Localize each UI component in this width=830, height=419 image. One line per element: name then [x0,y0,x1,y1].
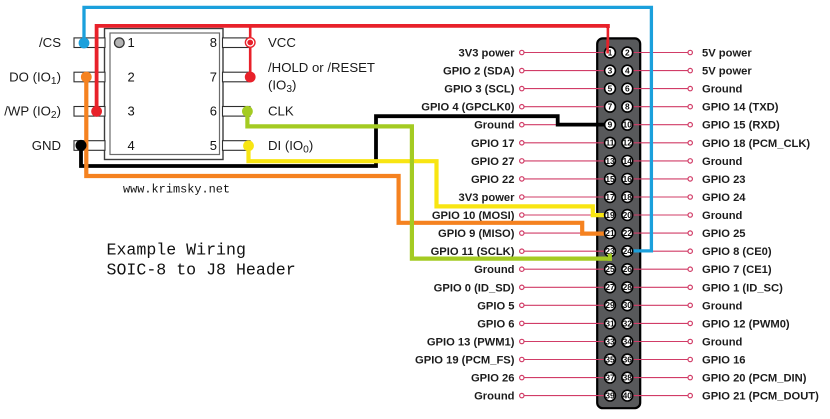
svg-text:GPIO 2 (SDA): GPIO 2 (SDA) [443,66,515,78]
J8 pin 10 circle [622,119,633,130]
node dot on U1 pin2 DO (orange) [81,72,92,83]
svg-text:2: 2 [128,69,135,84]
svg-text:5V power: 5V power [702,48,752,60]
leader line for J8 pin 11 [525,142,611,144]
J8 pin 7 circle [605,101,616,112]
svg-text:14: 14 [623,156,633,166]
node dot on U1 pin3 /WP (red) [91,106,102,117]
svg-text:37: 37 [605,373,615,383]
svg-text:5: 5 [210,138,217,153]
svg-text:GPIO 5: GPIO 5 [477,300,514,312]
open terminal ring for J8 pin 17 [520,195,524,199]
svg-text:Ground: Ground [702,84,743,96]
svg-text:GPIO 11 (SCLK): GPIO 11 (SCLK) [431,246,515,258]
wire 3V3 net tip overlapping J8 pin 1 [606,40,609,54]
open terminal ring for J8 pin 9 [520,123,524,127]
open terminal ring for J8 pin 15 [520,177,524,181]
svg-text:GPIO 26: GPIO 26 [471,373,515,385]
leader line for J8 pin 5 [525,88,611,90]
pin 1 indicator dot of U1 [115,38,125,48]
svg-text:GPIO 6: GPIO 6 [477,318,514,330]
svg-text:33: 33 [605,336,615,346]
J8 pin 14 circle [622,156,633,167]
leader line for J8 pin 22 [627,232,687,234]
J8 pin 24 circle [622,246,633,257]
open terminal ring for J8 pin 27 [520,285,524,289]
svg-text:8: 8 [625,102,630,112]
svg-text:4: 4 [128,138,135,153]
svg-text:DI (IO0): DI (IO0) [268,138,313,155]
svg-text:7: 7 [608,102,613,112]
svg-text:12: 12 [623,138,633,148]
open terminal ring for J8 pin 26 [688,267,692,271]
J8 pin 1 circle [605,47,616,58]
leader line for J8 pin 27 [525,286,611,288]
open terminal ring for J8 pin 23 [520,249,524,253]
svg-text:36: 36 [623,354,633,364]
open terminal ring for J8 pin 18 [688,195,692,199]
open terminal ring for J8 pin 14 [688,159,692,163]
svg-text:17: 17 [605,192,615,202]
node dot on U1 pin4 GND (black) [76,140,87,151]
wire 3V3 net: U1 pin3 /WP to J8 pin1 (red) [97,26,608,112]
svg-text:25: 25 [605,264,615,274]
svg-text:GPIO 10 (MOSI): GPIO 10 (MOSI) [432,210,515,222]
leader line for J8 pin 16 [627,178,687,180]
open terminal ring for J8 pin 20 [688,213,692,217]
svg-text:GPIO 19 (PCM_FS): GPIO 19 (PCM_FS) [415,355,515,367]
svg-text:/HOLD or /RESET: /HOLD or /RESET [268,60,375,75]
open terminal ring for J8 pin 33 [520,339,524,343]
svg-text:30: 30 [623,300,633,310]
wire 3V3 net stub: U1 VCC pin8 to /HOLD pin7 (red) [249,26,252,77]
wire GND net: U1 pin4 to J8 pin9 Ground (black) [81,116,606,166]
J8 pin 5 circle [605,83,616,94]
J8 pin 20 circle [622,210,633,221]
svg-text:1: 1 [128,35,135,50]
open terminal ring for J8 pin 24 [688,249,692,253]
leader line for J8 pin 39 [525,395,611,397]
svg-text:31: 31 [605,318,615,328]
wire CLK net tip notch overlapping J8 pin 23 [608,254,612,261]
svg-text:5V power: 5V power [702,66,752,78]
leader line for J8 pin 28 [627,286,687,288]
svg-text:39: 39 [605,391,615,401]
J8 pin 36 circle [622,354,633,365]
svg-text:DO (IO1): DO (IO1) [9,69,61,86]
leader line for J8 pin 15 [525,178,611,180]
open terminal ring for J8 pin 8 [688,105,692,109]
leader line for J8 pin 6 [627,88,687,90]
svg-text:2: 2 [625,47,630,57]
leader line for J8 pin 30 [627,304,687,306]
leader line for J8 pin 19 [525,214,611,216]
svg-text:6: 6 [210,104,217,119]
svg-text:GPIO 1 (ID_SC): GPIO 1 (ID_SC) [702,282,783,294]
leader line for J8 pin 34 [627,341,687,343]
open terminal ring for J8 pin 7 [520,105,524,109]
leader line for J8 pin 9 [525,124,611,126]
open terminal ring for J8 pin 19 [520,213,524,217]
svg-text:4: 4 [625,66,630,76]
leader line for J8 pin 24 [627,250,687,252]
svg-text:3V3 power: 3V3 power [459,48,516,60]
leader line for J8 pin 32 [627,322,687,324]
svg-text:www.krimsky.net: www.krimsky.net [123,183,230,197]
svg-text:GPIO 15 (RXD): GPIO 15 (RXD) [702,120,780,132]
svg-text:/WP (IO2): /WP (IO2) [4,104,61,121]
svg-text:GPIO 14 (TXD): GPIO 14 (TXD) [702,102,779,114]
svg-text:Ground: Ground [474,391,515,403]
svg-text:6: 6 [625,84,630,94]
svg-text:20: 20 [623,210,633,220]
J8 pin 28 circle [622,282,633,293]
leader line for J8 pin 12 [627,142,687,144]
open terminal ring for J8 pin 39 [520,393,524,397]
J8 pin 30 circle [622,300,633,311]
svg-text:/CS: /CS [39,35,61,50]
open terminal ring for J8 pin 10 [688,123,692,127]
svg-text:3: 3 [608,66,613,76]
open terminal ring for J8 pin 34 [688,339,692,343]
svg-text:Example Wiring: Example Wiring [107,241,246,260]
svg-text:GPIO 9 (MISO): GPIO 9 (MISO) [438,228,515,240]
J8 pin 8 circle [622,101,633,112]
node dot on U1 pin6 CLK (green) [242,106,253,117]
J8 pin 18 circle [622,192,633,203]
svg-text:3: 3 [128,104,135,119]
leader line for J8 pin 3 [525,70,611,72]
svg-text:GPIO 8 (CE0): GPIO 8 (CE0) [702,246,772,258]
svg-text:GND: GND [32,138,61,153]
IC U1 SOIC-8 outer outline [105,29,224,160]
svg-text:GPIO 24: GPIO 24 [702,192,746,204]
J8 pin 3 circle [605,65,616,76]
wire 3V3 net drop into J8 pin 1 (red) [607,26,610,51]
leader line for J8 pin 2 [627,52,687,54]
J8 pin 26 circle [622,264,633,275]
open terminal ring for J8 pin 38 [688,375,692,379]
wire CLK net: U1 pin6 to J8 pin23 GPIO11 SCLK (green) [247,113,609,259]
pin 8 stub of U1 [223,38,251,48]
leader line for J8 pin 7 [525,106,611,108]
svg-text:3V3 power: 3V3 power [459,192,516,204]
J8 pin 37 circle [605,372,616,383]
leader line for J8 pin 38 [627,377,687,379]
open terminal ring for J8 pin 22 [688,231,692,235]
node dot on U1 pin5 DI (yellow) [243,140,254,151]
svg-text:21: 21 [605,228,615,238]
svg-text:34: 34 [623,336,633,346]
svg-text:26: 26 [623,264,633,274]
J8 pin 33 circle [605,336,616,347]
svg-text:GPIO 22: GPIO 22 [471,174,515,186]
svg-text:32: 32 [623,318,633,328]
J8 pin 40 circle [622,390,633,401]
svg-text:40: 40 [623,391,633,401]
open terminal ring for J8 pin 21 [520,231,524,235]
svg-text:13: 13 [605,156,615,166]
svg-text:GPIO 12 (PWM0): GPIO 12 (PWM0) [702,318,790,330]
svg-text:7: 7 [210,69,217,84]
svg-text:GPIO 21 (PCM_DOUT): GPIO 21 (PCM_DOUT) [702,391,819,403]
pin 1 stub of U1 [74,38,105,48]
open terminal ring for J8 pin 5 [520,86,524,90]
pin 5 stub of U1 [223,141,251,151]
J8 pin 35 circle [605,354,616,365]
svg-text:VCC: VCC [268,35,296,50]
leader line for J8 pin 21 [525,232,611,234]
svg-text:Ground: Ground [702,210,743,222]
wire /CS net: U1 pin1 to J8 pin24 GPIO8 CE0 (blue) [84,7,651,251]
leader line for J8 pin 36 [627,359,687,361]
J8 pin 17 circle [605,192,616,203]
J8 pin 15 circle [605,174,616,185]
leader line for J8 pin 18 [627,196,687,198]
node dot on U1 pin1 /CS (blue) [79,38,90,49]
svg-text:16: 16 [623,174,633,184]
wire DO net: U1 pin2 to J8 pin21 GPIO9 MISO (orange) [86,79,606,234]
svg-text:GPIO 7 (CE1): GPIO 7 (CE1) [702,264,772,276]
svg-text:38: 38 [623,373,633,383]
open terminal ring for J8 pin 36 [688,357,692,361]
J8 pin 21 circle [605,228,616,239]
open terminal ring for J8 pin 1 [520,50,524,54]
svg-text:(IO3): (IO3) [268,78,296,95]
svg-text:24: 24 [623,246,633,256]
svg-text:GPIO 18 (PCM_CLK): GPIO 18 (PCM_CLK) [702,138,810,150]
open terminal ring for J8 pin 28 [688,285,692,289]
svg-text:GPIO 3 (SCL): GPIO 3 (SCL) [444,84,515,96]
leader line for J8 pin 23 [525,250,611,252]
leader line for J8 pin 33 [525,341,611,343]
svg-text:5: 5 [608,84,613,94]
leader line for J8 pin 14 [627,160,687,162]
open terminal ring for J8 pin 32 [688,321,692,325]
leader line for J8 pin 31 [525,322,611,324]
svg-text:SOIC-8 to J8 Header: SOIC-8 to J8 Header [107,260,296,279]
pin 2 stub of U1 [74,72,105,82]
leader line for J8 pin 20 [627,214,687,216]
J8 pin 4 circle [622,65,633,76]
svg-text:19: 19 [605,210,615,220]
leader line for J8 pin 40 [627,395,687,397]
open terminal ring for J8 pin 3 [520,68,524,72]
svg-text:Ground: Ground [474,120,515,132]
svg-text:GPIO 23: GPIO 23 [702,174,746,186]
open terminal ring for J8 pin 40 [688,393,692,397]
open terminal ring for J8 pin 13 [520,159,524,163]
svg-text:Ground: Ground [474,264,515,276]
pin 3 stub of U1 [74,107,105,117]
J8 pin 23 circle [605,246,616,257]
svg-text:GPIO 25: GPIO 25 [702,228,746,240]
leader line for J8 pin 26 [627,268,687,270]
leader line for J8 pin 17 [525,196,611,198]
leader line for J8 pin 35 [525,359,611,361]
open terminal ring for J8 pin 35 [520,357,524,361]
svg-text:10: 10 [623,120,633,130]
svg-text:GPIO 16: GPIO 16 [702,355,746,367]
J8 pin 19 circle [605,210,616,221]
leader line for J8 pin 1 [525,52,611,54]
leader line for J8 pin 29 [525,304,611,306]
node marker on U1 pin8 VCC (red dot with white ring) [245,37,256,48]
svg-text:35: 35 [605,354,615,364]
svg-text:GPIO 20 (PCM_DIN): GPIO 20 (PCM_DIN) [702,373,807,385]
svg-text:GPIO 13 (PWM1): GPIO 13 (PWM1) [427,337,515,349]
J8 pin 38 circle [622,372,633,383]
pin 7 stub of U1 [223,72,251,82]
leader line for J8 pin 37 [525,377,611,379]
pin 6 stub of U1 [223,107,251,117]
svg-text:27: 27 [605,282,615,292]
wire DI net: U1 pin5 to J8 pin19 GPIO10 MOSI (yellow) [249,148,607,215]
svg-text:GPIO 4 (GPCLK0): GPIO 4 (GPCLK0) [421,102,515,114]
open terminal ring for J8 pin 12 [688,141,692,145]
open terminal ring for J8 pin 6 [688,86,692,90]
leader line for J8 pin 13 [525,160,611,162]
pin 4 stub of U1 [74,141,105,151]
J8 pin 16 circle [622,174,633,185]
svg-text:Ground: Ground [702,156,743,168]
svg-text:28: 28 [623,282,633,292]
open terminal ring for J8 pin 11 [520,141,524,145]
leader line for J8 pin 8 [627,106,687,108]
J8 pin 39 circle [605,390,616,401]
IC U1 SOIC-8 inner outline [110,33,220,155]
svg-text:8: 8 [210,35,217,50]
J8 pin 27 circle [605,282,616,293]
open terminal ring for J8 pin 4 [688,68,692,72]
svg-text:GPIO 0 (ID_SD): GPIO 0 (ID_SD) [434,282,515,294]
svg-text:11: 11 [606,138,615,148]
svg-text:18: 18 [623,192,633,202]
leader line for J8 pin 4 [627,70,687,72]
node dot on U1 pin7 /HOLD (red) [245,72,256,83]
open terminal ring for J8 pin 30 [688,303,692,307]
svg-text:15: 15 [605,174,615,184]
svg-text:22: 22 [623,228,633,238]
J8 pin 31 circle [605,318,616,329]
svg-text:Ground: Ground [702,300,743,312]
open terminal ring for J8 pin 16 [688,177,692,181]
J8 pin 12 circle [622,137,633,148]
connector J8 40-pin header body [597,38,640,408]
open terminal ring for J8 pin 25 [520,267,524,271]
svg-text:Ground: Ground [702,337,743,349]
J8 pin 32 circle [622,318,633,329]
J8 pin 2 circle [622,47,633,58]
open terminal ring for J8 pin 31 [520,321,524,325]
J8 pin 6 circle [622,83,633,94]
svg-text:GPIO 27: GPIO 27 [471,156,515,168]
svg-text:9: 9 [608,120,613,130]
J8 pin 11 circle [605,137,616,148]
J8 pin 13 circle [605,156,616,167]
svg-text:CLK: CLK [268,104,294,119]
svg-text:29: 29 [605,300,615,310]
open terminal ring for J8 pin 2 [688,50,692,54]
J8 pin 34 circle [622,336,633,347]
open terminal ring for J8 pin 37 [520,375,524,379]
J8 pin 9 circle [605,119,616,130]
svg-text:GPIO 17: GPIO 17 [471,138,515,150]
J8 pin 22 circle [622,228,633,239]
J8 pin 25 circle [605,264,616,275]
open terminal ring for J8 pin 29 [520,303,524,307]
leader line for J8 pin 25 [525,268,611,270]
leader line for J8 pin 10 [627,124,687,126]
J8 pin 29 circle [605,300,616,311]
